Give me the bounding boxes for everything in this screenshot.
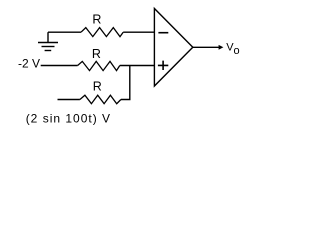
svg-text:(2 sin 100t) V: (2 sin 100t) V xyxy=(26,111,111,125)
svg-text:-2 V: -2 V xyxy=(18,57,40,71)
output arrow xyxy=(219,45,224,50)
resistor R3 xyxy=(80,95,121,104)
resistor R2 xyxy=(78,61,120,70)
resistor R1 xyxy=(81,28,123,37)
wire start to R3 xyxy=(58,99,80,101)
wire op-amp output xyxy=(193,46,219,48)
svg-text:R: R xyxy=(93,79,102,93)
wire R1 to op-amp inverting input xyxy=(123,31,154,33)
svg-text:R: R xyxy=(92,47,101,61)
svg-text:o: o xyxy=(234,45,240,57)
wire R3 to node A xyxy=(121,66,130,100)
ground xyxy=(38,32,58,50)
svg-text:R: R xyxy=(92,12,101,26)
pin label plus xyxy=(158,61,168,70)
wire R2 to op-amp noninverting input through node A xyxy=(120,65,155,67)
wire ground to R1 xyxy=(48,31,81,33)
pin label minus xyxy=(158,32,168,34)
op-amp U1 xyxy=(154,9,192,87)
wire -2V to R2 xyxy=(41,65,78,67)
value label Vo xyxy=(226,41,239,57)
